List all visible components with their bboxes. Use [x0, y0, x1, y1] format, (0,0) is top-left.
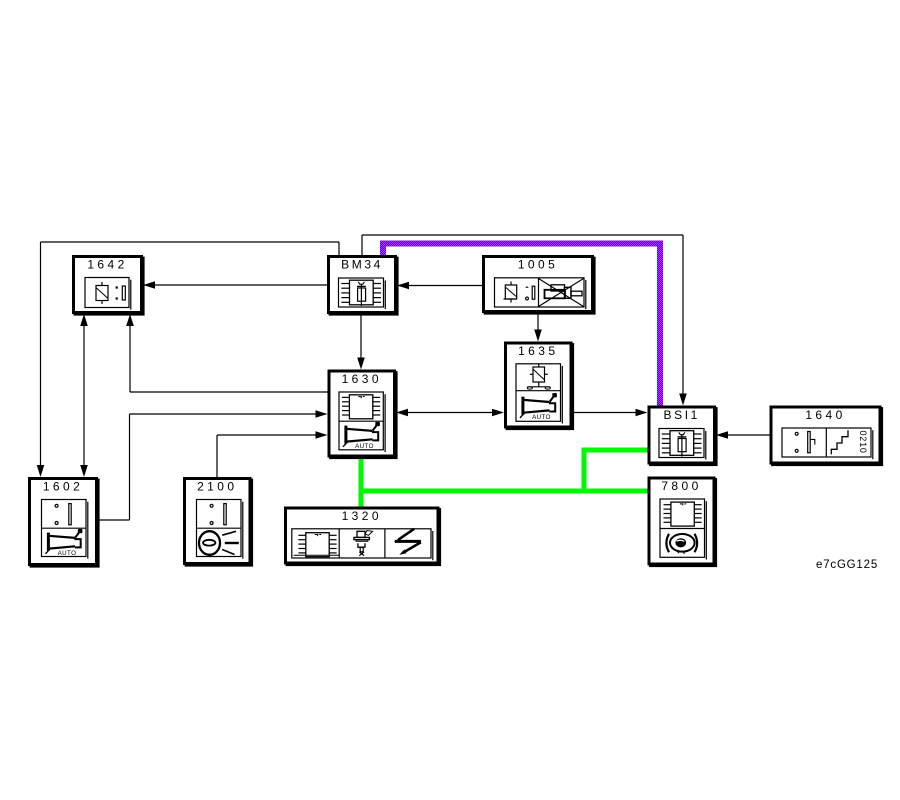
icon strip 1635 [516, 364, 562, 424]
arrowhead left into 1630 right side [396, 409, 408, 417]
arrowhead down into 1602 top-left pin x=40.5 [37, 465, 45, 477]
svg-text:1005: 1005 [518, 258, 558, 272]
icon: lightning bolt (1320 right cell) [394, 529, 421, 555]
wire: top horizontal net y=235 from BM34 top x=362 to BSI1 top x=683 [362, 235, 683, 395]
arrowhead right into 1635 left side [492, 409, 504, 417]
wire: 1005 bottom to 1635 top x=538 [537, 313, 539, 331]
arrowhead down into BSI1 top x=683 [679, 394, 687, 406]
component box 7800 (outline with drop shadow) [649, 478, 717, 567]
icon: staircase signal (1640 right cell) [831, 430, 868, 454]
icon: switch contact (1640 left cell) [795, 432, 815, 453]
arrowhead up into 1642 bottom x=130 [126, 314, 134, 326]
icon strip 1320 [292, 529, 433, 560]
svg-text:1320: 1320 [342, 509, 382, 523]
icon: microcontroller chip (1320 left cell) [298, 533, 336, 557]
arrowhead right into 1630 left y=414 [316, 410, 328, 418]
svg-text:1602: 1602 [43, 480, 83, 494]
icon: headlamp with rays (2100) [199, 531, 239, 555]
component box 1005 (outline with drop shadow) [484, 257, 596, 315]
icon: fuel injector (1320 middle cell) [354, 531, 373, 556]
arrowhead down into 1602 top x=84 [80, 465, 88, 477]
arrowhead up into 1642 bottom x=84 [80, 314, 88, 326]
wire: 2100 top x=217 up then right into 1630 left y=435 [217, 435, 317, 477]
svg-text:1635: 1635 [518, 344, 558, 358]
svg-text:AUTO: AUTO [58, 550, 77, 557]
svg-text:e7cGG125: e7cGG125 [816, 559, 878, 571]
wire: 1630 right to 1635 left y=412.5 (arrows both ends) [407, 412, 494, 414]
wire: BM34 bottom to 1630 top x=361 [360, 314, 362, 359]
icon: microcontroller chip (7800) [664, 502, 702, 526]
svg-text:AUTO: AUTO [355, 443, 374, 450]
svg-text:AUTO: AUTO [532, 414, 551, 421]
arrowhead down into 1635 top [534, 330, 542, 342]
icon strip 1640 [782, 428, 873, 459]
icon: fuse box (BSI1) [659, 429, 706, 460]
green wire: branch up at x=584 to y=450 [582, 450, 587, 494]
wire: BM34 left to 1642 right y=285 [155, 284, 327, 286]
icon strip 7800 [660, 499, 706, 560]
wire: BSI1 right to 1640 left y=435 [728, 434, 770, 436]
wire: 1635 right to BSI1 left y=412.5 [573, 412, 637, 414]
component box 1602 (outline with drop shadow) [30, 479, 100, 568]
icon: crossed-out starter motor (1005 right cell) [539, 279, 584, 307]
icon: fuse box (BM34) [339, 278, 386, 309]
wire: from 1642 bottom x=130 down then right into 1630 left y=392 [130, 325, 328, 392]
svg-text:7800: 7800 [661, 479, 701, 493]
icon strip 1602 [42, 500, 88, 559]
component box BSI1 (outline with drop shadow) [649, 407, 718, 466]
icon: connector dots and bar (1642) [116, 286, 126, 300]
purple dithered wire: BM34 top x=383 up, across y=243.5, down into BSI1 top x=660 [383, 244, 660, 406]
arrowhead left into BSI1 right side [716, 431, 728, 439]
wire: top-left horizontal net y=242 from x=40.5 to BM34 top drop at x=339 [41, 242, 340, 466]
component box 1320 (outline with drop shadow) [286, 508, 442, 566]
arrowhead right into 1630 left y=435 [316, 431, 328, 439]
icon strip 1630 [339, 392, 385, 452]
arrowhead right into BSI1 left side [636, 409, 648, 417]
green wire: 1630 bottom down to 1320 top x=361 [359, 456, 364, 507]
icon strip 2100 [197, 500, 243, 559]
icon: automatic horn (1630) [343, 422, 380, 450]
wire: 1005 left to BM34 right y=285.5 [409, 285, 482, 287]
component box 1635 (outline with drop shadow) [506, 343, 575, 430]
icon strip 1642 [85, 278, 131, 310]
green wire: horizontal y=491 from x=361 to 7800 left [359, 489, 648, 494]
component box BM34 (outline with drop shadow) [329, 257, 399, 316]
icon: connector marks (1005 left cell) [525, 286, 535, 300]
icon: light sensor square (1005 left cell) [504, 282, 518, 303]
svg-text:1642: 1642 [87, 258, 127, 272]
icon: automatic horn (1602) [46, 529, 83, 557]
svg-text:1640: 1640 [805, 408, 845, 422]
svg-text:1630: 1630 [342, 372, 382, 386]
svg-text:BSI1: BSI1 [664, 408, 700, 422]
arrowhead down into 1630 top [357, 358, 365, 370]
svg-text:BM34: BM34 [341, 258, 383, 272]
component box 1630 (outline with drop shadow) [329, 371, 398, 459]
svg-text:0210: 0210 [858, 431, 868, 454]
wire: vertical x=84 between 1642 bottom and 1602 top (arrows both ends) [83, 325, 85, 466]
icon: sensor on stand (1635) [527, 364, 550, 390]
component box 1640 (outline with drop shadow) [771, 407, 883, 466]
green wire: horizontal y=450 into BSI1 left [582, 448, 648, 453]
arrowhead left into 1642 right side [143, 281, 155, 289]
icon: microcontroller chip (1630) [342, 395, 380, 419]
wire: 1602 right side y=520 up x=129.5 then right into 1630 left y=414 [98, 414, 317, 520]
svg-text:2100: 2100 [197, 480, 237, 494]
component box 1642 (outline with drop shadow) [74, 257, 145, 316]
icon: connector dots and bar (2100) [210, 504, 226, 525]
icon: siren with sound waves (7800) [666, 534, 697, 554]
arrowhead left into BM34 right side [397, 282, 409, 290]
component box 2100 (outline with drop shadow) [185, 479, 254, 567]
icon: connector dots and bar (1602) [55, 504, 71, 525]
icon: automatic horn (1635) [520, 393, 557, 421]
icon: light sensor square with diagonal (1642) [96, 282, 108, 304]
icon strip 1005 [495, 278, 586, 309]
